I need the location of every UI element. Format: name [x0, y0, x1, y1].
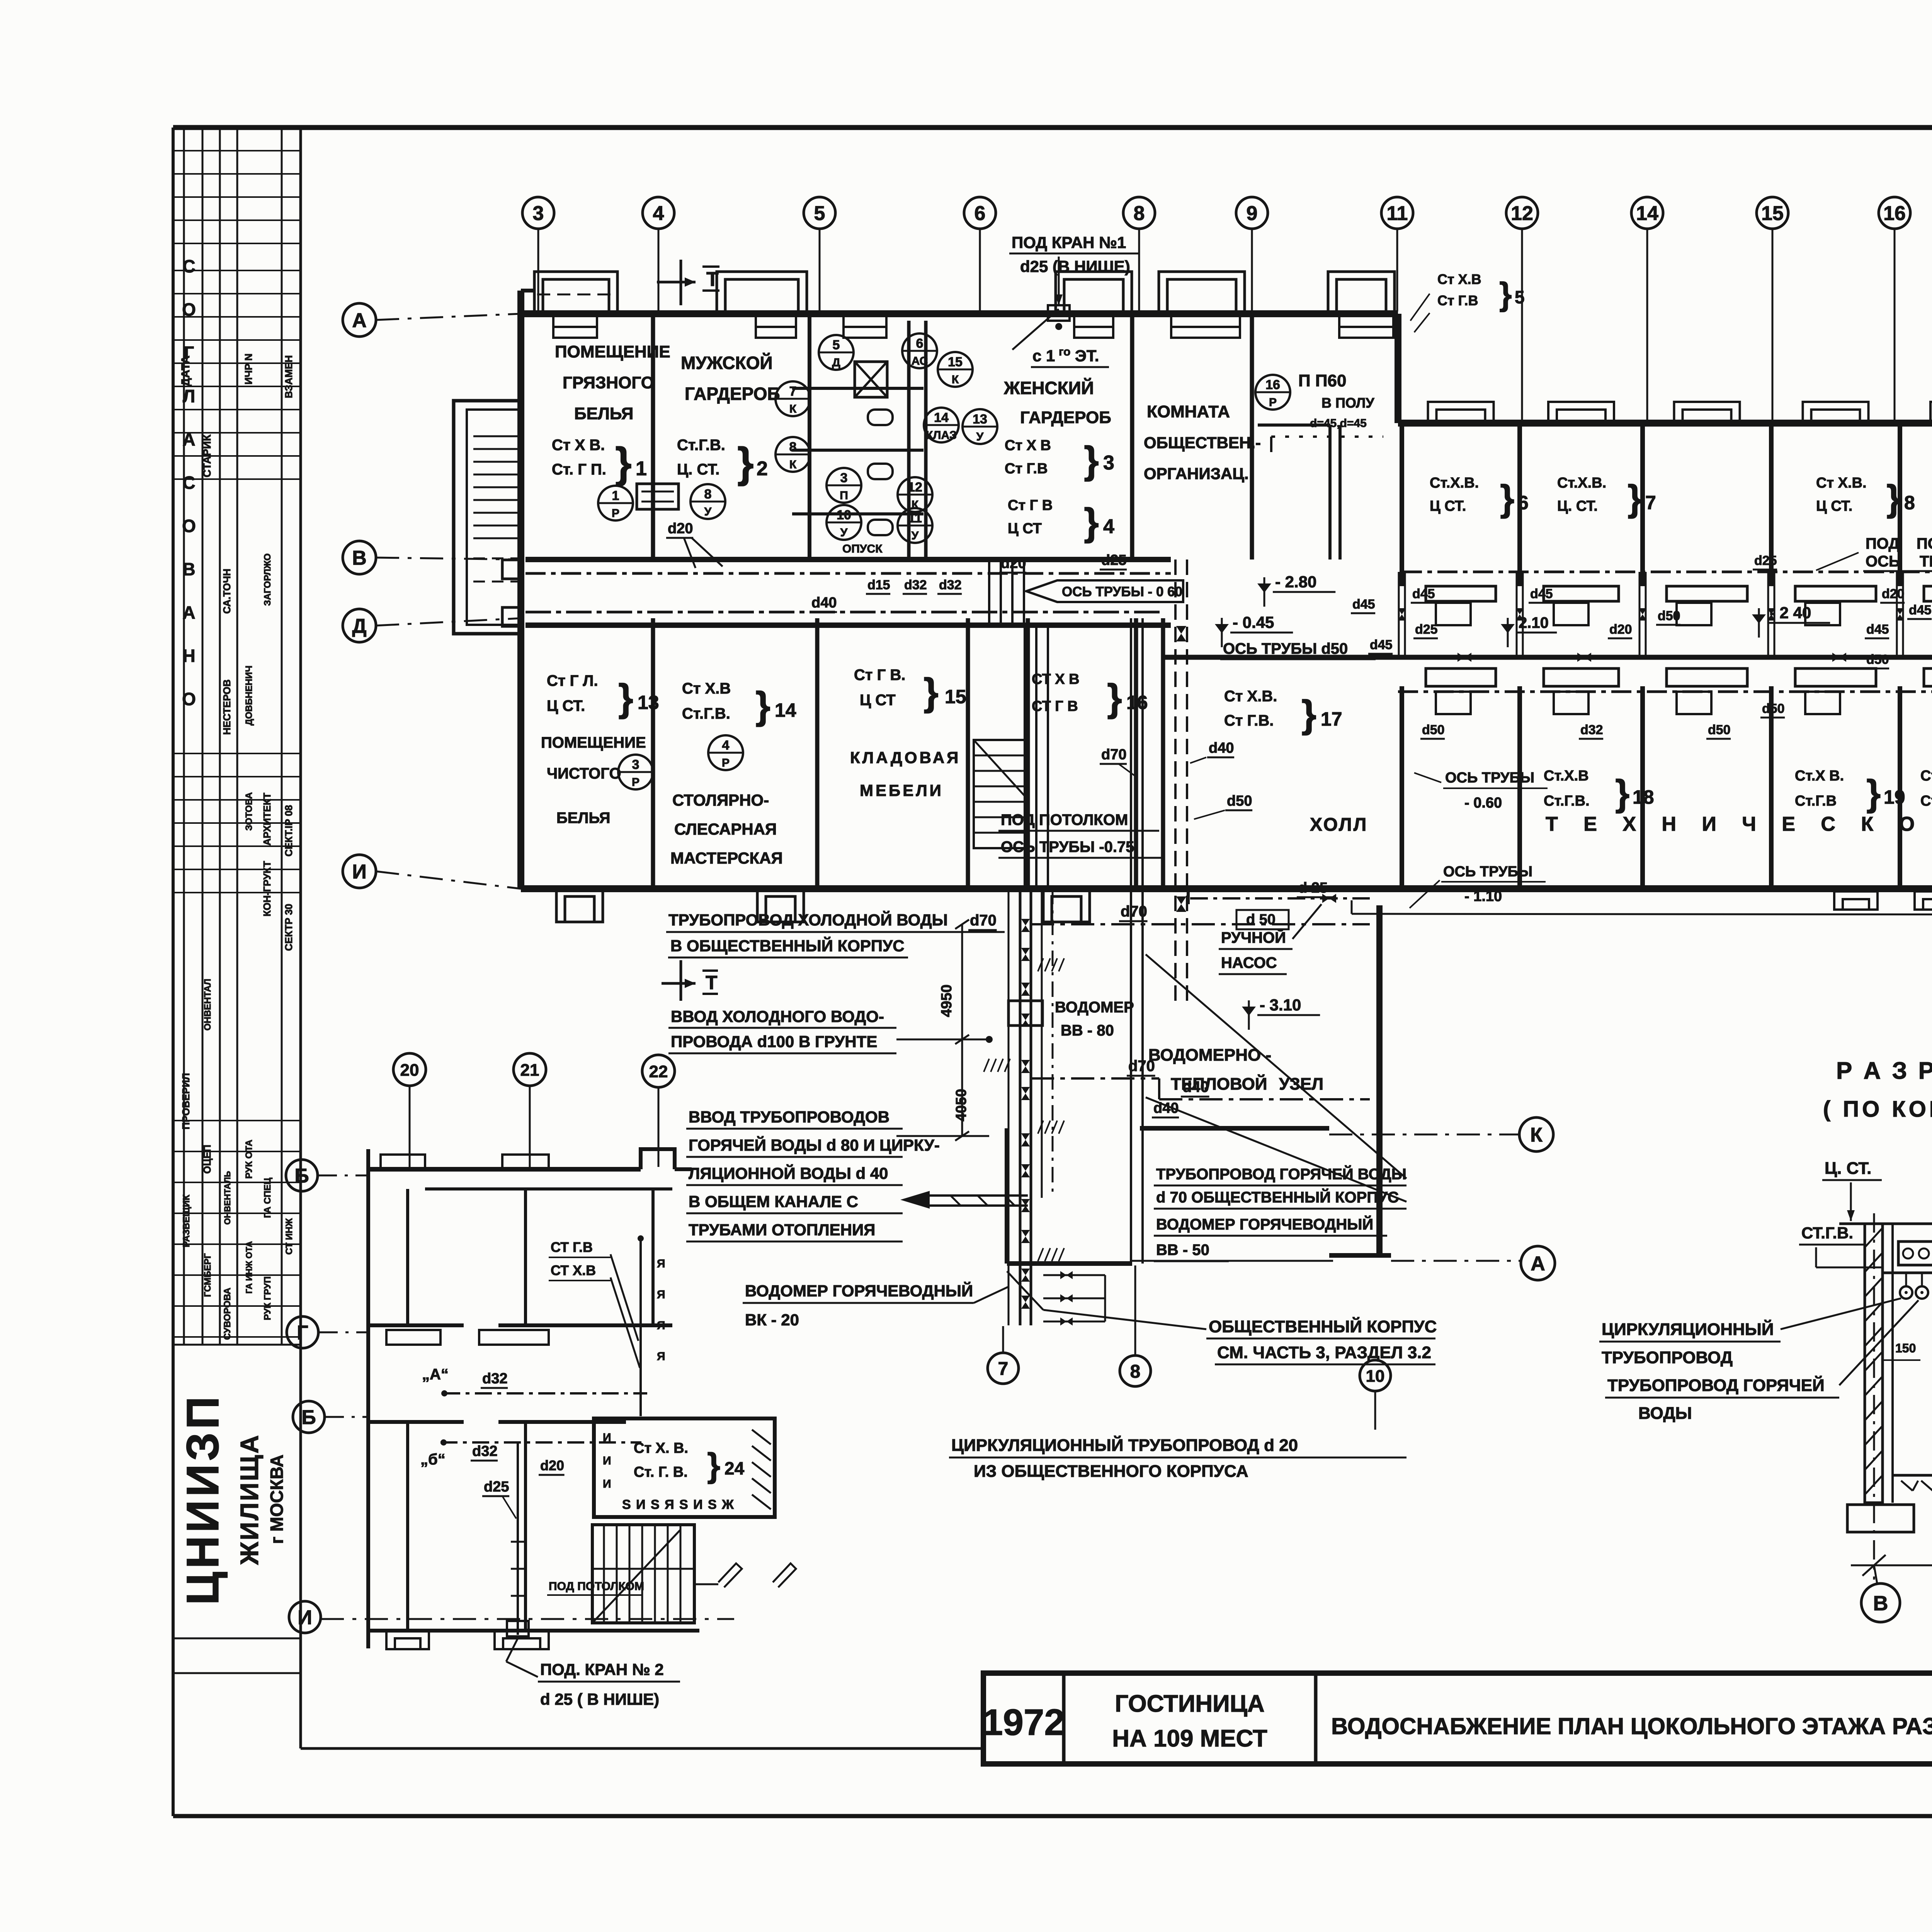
title block frame — [983, 1673, 1932, 1764]
svg-text:ОСЬ ТРУБЫ: ОСЬ ТРУБЫ — [1443, 864, 1532, 880]
svg-text:Ст Х В: Ст Х В — [1005, 437, 1051, 454]
svg-text:3: 3 — [840, 471, 848, 485]
svg-text:d45: d45 — [1866, 622, 1889, 637]
svg-text:СТ ИНЖ: СТ ИНЖ — [284, 1218, 294, 1255]
svg-text:С: С — [182, 473, 195, 493]
bowtie below hall — [1322, 894, 1336, 903]
svg-text:И: И — [352, 861, 366, 883]
svg-text:ПОД. КРАН № 2: ПОД. КРАН № 2 — [540, 1660, 664, 1679]
svg-text:7: 7 — [1645, 492, 1656, 514]
svg-text:11: 11 — [1387, 202, 1408, 225]
svg-text:d32: d32 — [904, 578, 927, 592]
svg-text:ТРУБОПРОВОД ХОЛОДНОЙ ВОДЫ: ТРУБОПРОВОД ХОЛОДНОЙ ВОДЫ — [668, 910, 948, 929]
riser circle 3P room13 — [618, 755, 653, 789]
svg-text:В: В — [182, 559, 195, 579]
svg-text:Я: Я — [657, 1288, 665, 1301]
svg-text:Ц СТ: Ц СТ — [860, 692, 896, 709]
vertical riser shaft double dash — [1174, 560, 1177, 1005]
soil hatch marks — [1038, 958, 1043, 971]
svg-text:Ст.Х В.: Ст.Х В. — [1795, 768, 1844, 784]
room 24 side hatch — [752, 1430, 771, 1444]
pipe d40 horizontal mid — [1159, 1098, 1370, 1100]
riser circle 5D — [819, 335, 854, 370]
svg-text:с 1: с 1 — [1032, 347, 1055, 365]
small plan corridor walls — [368, 1323, 464, 1327]
svg-text:КОН-ГРУКТ: КОН-ГРУКТ — [261, 861, 273, 917]
svg-text:ВОДЫ: ВОДЫ — [1638, 1404, 1692, 1423]
svg-text:14: 14 — [934, 410, 949, 425]
svg-text:ЦИРКУЛЯЦИОННЫЙ ТРУБОПРОВОД: ЦИРКУЛЯЦИОННЫЙ ТРУБОПРОВОД d 20 — [951, 1435, 1298, 1455]
svg-text:ГАРДЕРОБ: ГАРДЕРОБ — [1020, 408, 1111, 427]
svg-text:8: 8 — [789, 440, 797, 454]
svg-text:СТ Г В: СТ Г В — [1032, 698, 1078, 714]
section top slab lines — [1839, 1223, 1932, 1225]
svg-text:Ст. Г П.: Ст. Г П. — [552, 461, 606, 478]
svg-text:d45: d45 — [1370, 638, 1393, 652]
svg-text:ОНВЕНТАЛЬ: ОНВЕНТАЛЬ — [223, 1171, 232, 1225]
svg-text:4: 4 — [653, 202, 664, 225]
svg-text:8: 8 — [1134, 202, 1145, 225]
stamp strip row lines middle — [173, 753, 301, 754]
svg-text:}: } — [1107, 676, 1122, 719]
svg-text:С: С — [182, 256, 195, 276]
svg-text:8: 8 — [704, 487, 712, 502]
svg-text:МЕБЕЛИ: МЕБЕЛИ — [860, 781, 944, 799]
grid axis bubble 6 — [964, 197, 996, 229]
pipe d32 upper small plan — [443, 1392, 647, 1395]
riser circle 8U — [690, 484, 725, 519]
svg-text:Я: Я — [657, 1350, 665, 1363]
entrance porch outline — [454, 401, 521, 634]
svg-text:- 0.60: - 0.60 — [1464, 795, 1502, 811]
wing corridor piers lower row — [1426, 668, 1496, 686]
svg-text:ТРУБОПРОВОД: ТРУБОПРОВОД — [1602, 1348, 1733, 1367]
svg-text:d 25 ( В НИШЕ): d 25 ( В НИШЕ) — [540, 1690, 659, 1708]
riser circle 4P room14 — [708, 735, 743, 770]
svg-text:ОСЬ: ОСЬ — [1866, 553, 1900, 570]
section footing left — [1847, 1505, 1914, 1532]
riser circle 14 — [924, 408, 959, 442]
svg-text:6: 6 — [916, 336, 923, 351]
svg-text:Ст.Х.В.: Ст.Х.В. — [1557, 475, 1606, 491]
svg-text:16: 16 — [1883, 202, 1906, 225]
svg-text:Я: Я — [657, 1319, 665, 1332]
riser circle 6AC — [902, 333, 937, 368]
d70 vertical pipes to hall — [1130, 618, 1132, 889]
svg-text:В: В — [352, 547, 367, 570]
arrow to duct — [900, 1191, 930, 1209]
svg-text:У: У — [704, 505, 712, 518]
svg-text:d40: d40 — [811, 595, 837, 611]
svg-text:УЗЕЛ: УЗЕЛ — [1279, 1075, 1323, 1094]
svg-text:d40: d40 — [1209, 740, 1234, 756]
svg-text:О: О — [182, 689, 196, 709]
svg-text:К: К — [789, 458, 797, 471]
dimension line vertical 4950 — [961, 924, 963, 1136]
svg-text:2.10: 2.10 — [1519, 614, 1549, 631]
svg-text:16: 16 — [1265, 378, 1280, 392]
window bay bottom wall left block — [757, 889, 804, 922]
svg-text:ОБЩЕСТВЕННЫЙ КОРПУС: ОБЩЕСТВЕННЫЙ КОРПУС — [1209, 1316, 1437, 1336]
svg-text:Ст.Х.В.: Ст.Х.В. — [1430, 475, 1479, 491]
svg-text:Г: Г — [297, 1322, 308, 1344]
svg-text:Ст Х В.: Ст Х В. — [552, 437, 605, 454]
svg-text:1: 1 — [636, 457, 647, 480]
svg-text:А: А — [352, 310, 367, 332]
small plan inner top wall — [425, 1187, 672, 1190]
svg-text:ПОД ПОТОЛКОМ: ПОД ПОТОЛКОМ — [549, 1580, 644, 1593]
section mark T bottom — [680, 960, 682, 1001]
svg-text:У: У — [976, 430, 984, 443]
svg-text:БЕЛЬЯ: БЕЛЬЯ — [574, 404, 633, 423]
duct dashes — [951, 1196, 961, 1206]
grid axis bubble 14 — [1631, 197, 1663, 229]
svg-text:Ст Г В.: Ст Г В. — [854, 667, 905, 684]
svg-text:В ОБЩЕСТВЕННЫЙ КОРПУС: В ОБЩЕСТВЕННЫЙ КОРПУС — [670, 936, 905, 955]
svg-text:}: } — [707, 1446, 720, 1484]
dashed sill line in first window — [537, 294, 617, 296]
svg-text:ТЕПЛОВОЙ: ТЕПЛОВОЙ — [1171, 1074, 1267, 1094]
svg-text:15: 15 — [948, 355, 963, 369]
svg-text:Ст Г.В: Ст Г.В — [1005, 461, 1048, 477]
stamp strip row lines upper — [173, 150, 301, 151]
svg-text:d45: d45 — [1412, 587, 1435, 601]
svg-text:„б“: „б“ — [420, 1451, 446, 1468]
circulation dash riser — [1052, 889, 1054, 1198]
pilaster below top wall — [1339, 316, 1393, 327]
svg-text:Ст Г Л.: Ст Г Л. — [547, 672, 598, 689]
svg-text:СТ Х В: СТ Х В — [1032, 671, 1080, 687]
svg-text:ГОРЯЧЕЙ ВОДЫ d 80 И ЦИРКУ-: ГОРЯЧЕЙ ВОДЫ d 80 И ЦИРКУ- — [689, 1136, 940, 1154]
cniiep box border — [173, 1638, 301, 1639]
svg-text:ЖИЛИЩА: ЖИЛИЩА — [235, 1434, 264, 1565]
svg-text:Ст Х. В.: Ст Х. В. — [634, 1440, 688, 1456]
grid axis bubble 16 — [1879, 197, 1910, 229]
grid axis bubble 8 — [1123, 197, 1155, 229]
row axis bubble В left — [343, 541, 376, 574]
svg-text:d32: d32 — [472, 1443, 497, 1459]
svg-text:13: 13 — [973, 412, 987, 427]
svg-text:СТ.Г.В.: СТ.Г.В. — [1801, 1224, 1853, 1242]
svg-text:ВЗАМЕН: ВЗАМЕН — [283, 355, 294, 398]
svg-text:d 70 ОБЩЕСТВЕННЫЙ КОРПУС: d 70 ОБЩЕСТВЕННЫЙ КОРПУС — [1156, 1188, 1399, 1206]
wing riser drops at partitions — [1398, 572, 1400, 657]
svg-text:24: 24 — [724, 1458, 745, 1478]
small plan outline — [366, 1149, 370, 1648]
svg-text:ДОВБНЕНИЧ: ДОВБНЕНИЧ — [244, 665, 254, 725]
section leaders left — [1781, 1298, 1901, 1329]
svg-text:Ст Г.В.: Ст Г.В. — [1224, 712, 1274, 729]
svg-text:}: } — [755, 684, 770, 727]
svg-text:ВВ - 50: ВВ - 50 — [1156, 1242, 1209, 1259]
svg-text:ВК - 20: ВК - 20 — [745, 1311, 799, 1329]
svg-text:}: } — [1084, 439, 1099, 482]
svg-text:3: 3 — [632, 757, 639, 772]
svg-text:d20: d20 — [1609, 622, 1632, 637]
grid axis bubble 4 — [643, 197, 674, 229]
svg-text:Ц СТ.: Ц СТ. — [1430, 498, 1466, 514]
pilaster below top wall — [553, 316, 597, 327]
entrance stair steps — [473, 435, 518, 437]
svg-text:ГА ИНЖ ОТА: ГА ИНЖ ОТА — [244, 1241, 254, 1294]
svg-text:ПОД КРАН №1: ПОД КРАН №1 — [1012, 233, 1126, 252]
svg-text:ЛЯЦИОННОЙ ВОДЫ d 40: ЛЯЦИОННОЙ ВОДЫ d 40 — [689, 1164, 888, 1182]
sheet outer border — [173, 125, 1932, 130]
svg-text:13: 13 — [638, 692, 659, 713]
svg-text:Ст Г.В: Ст Г.В — [1437, 293, 1478, 308]
svg-text:СЕКТР 30: СЕКТР 30 — [283, 904, 294, 951]
svg-text:ПОД ПОТОЛКОМ: ПОД ПОТОЛКОМ — [1001, 811, 1128, 828]
section floor line — [1893, 1474, 1932, 1477]
svg-text:А: А — [1531, 1253, 1545, 1275]
svg-text:d20: d20 — [540, 1458, 564, 1473]
svg-text:4: 4 — [1103, 515, 1114, 538]
row axis bubble А left — [343, 303, 376, 337]
svg-text:ОСЬ ТРУБЫ - 0 60: ОСЬ ТРУБЫ - 0 60 — [1062, 584, 1182, 599]
svg-text:}: } — [1628, 478, 1642, 519]
vertical pipes right pair — [1130, 889, 1132, 1264]
svg-text:d45: d45 — [1530, 587, 1553, 601]
svg-text:Р: Р — [632, 776, 639, 789]
grid axis bubble 3 — [522, 197, 554, 229]
svg-text:d25: d25 — [1415, 622, 1438, 637]
pipe d40 corridor line — [526, 611, 1163, 614]
riser circle 1P — [598, 486, 633, 520]
svg-text:Ст Х В: Ст Х В — [1920, 768, 1932, 784]
svg-text:СТАРИК: СТАРИК — [201, 434, 213, 478]
water meter VV80 symbol — [1009, 1001, 1043, 1026]
grid axis bubble 5 — [804, 197, 835, 229]
pipe d70 horizontal mid — [1031, 1077, 1159, 1080]
svg-text:8: 8 — [1130, 1361, 1141, 1382]
svg-text:ЭТ.: ЭТ. — [1075, 347, 1099, 365]
svg-text:10: 10 — [837, 508, 851, 522]
row axis bubble Д left — [343, 609, 376, 642]
svg-text:d45: d45 — [1909, 603, 1932, 617]
svg-text:17: 17 — [1321, 708, 1342, 730]
partition room14-kladovaya — [815, 618, 820, 889]
svg-text:14: 14 — [775, 699, 796, 721]
svg-text:ОСЬ ТРУБЫ: ОСЬ ТРУБЫ — [1445, 770, 1534, 786]
svg-text:}: } — [1500, 478, 1514, 519]
svg-text:Ст Х.В: Ст Х.В — [1437, 271, 1481, 287]
vertical pipes room16 down — [1024, 625, 1026, 889]
riser circle 10U — [827, 505, 861, 540]
svg-text:КОМНАТА: КОМНАТА — [1147, 402, 1230, 421]
svg-text:15: 15 — [1761, 202, 1784, 225]
corridor pier bump left outside — [502, 560, 522, 579]
svg-text:ИЗ ОБЩЕСТВЕННОГО КОРПУСА: ИЗ ОБЩЕСТВЕННОГО КОРПУСА — [974, 1462, 1248, 1481]
svg-text:- 2.80: - 2.80 — [1275, 573, 1316, 591]
svg-text:ВОДОМЕР: ВОДОМЕР — [1055, 999, 1134, 1016]
wing small fitting clusters — [1436, 603, 1471, 625]
svg-text:2: 2 — [757, 457, 768, 480]
svg-text:БЕЛЬЯ: БЕЛЬЯ — [556, 810, 610, 827]
svg-text:ЗОТОВА: ЗОТОВА — [244, 792, 254, 831]
partition sanitary mid — [907, 321, 911, 560]
pipe d25 vertical small plan — [517, 1442, 519, 1635]
svg-text:В ОБЩЕМ КАНАЛЕ С: В ОБЩЕМ КАНАЛЕ С — [689, 1192, 858, 1211]
svg-text:А: А — [182, 429, 195, 449]
svg-text:14: 14 — [1636, 202, 1658, 225]
svg-text:16: 16 — [1126, 692, 1148, 713]
svg-text:d32: d32 — [939, 578, 962, 592]
section ceiling channel — [1898, 1242, 1932, 1265]
wing pipe lower dashline — [1398, 690, 1932, 693]
leader lines to pipes uzel — [1146, 954, 1406, 1179]
svg-text:Ст Х.В: Ст Х.В — [682, 680, 731, 697]
main pipe d50 thick — [1163, 655, 1932, 660]
svg-text:ЗАГОРЛЖО: ЗАГОРЛЖО — [262, 553, 273, 606]
svg-text:3: 3 — [1103, 452, 1114, 474]
wing partitions upper — [1400, 423, 1404, 586]
svg-text:А: А — [182, 602, 195, 622]
bubble 8 lower — [1120, 1355, 1151, 1386]
svg-text:5: 5 — [814, 202, 825, 225]
svg-text:- 3.10: - 3.10 — [1260, 996, 1301, 1014]
pipe d70 horizontal top — [1031, 923, 1370, 925]
svg-text:КЛАЗ: КЛАЗ — [926, 429, 957, 442]
kladovaya walls — [966, 618, 970, 889]
svg-text:S И S Я S И S Ж: S И S Я S И S Ж — [622, 1497, 735, 1512]
axis I small plan — [321, 1618, 734, 1620]
svg-text:4: 4 — [722, 738, 730, 753]
svg-text:ВВОД ТРУБОПРОВОДОВ: ВВОД ТРУБОПРОВОДОВ — [689, 1108, 889, 1126]
svg-text:„А“: „А“ — [422, 1366, 449, 1383]
svg-text:ПОД: ПОД — [1866, 535, 1900, 552]
svg-text:ПРОВЕРИЛ: ПРОВЕРИЛ — [180, 1073, 192, 1129]
uzel walls bottom — [1140, 1126, 1329, 1131]
svg-text:}: } — [1886, 478, 1901, 519]
svg-text:10: 10 — [1366, 1367, 1385, 1386]
svg-text:Ц СТ.: Ц СТ. — [1816, 498, 1852, 514]
svg-text:Б: Б — [301, 1406, 316, 1429]
svg-text:19: 19 — [1884, 786, 1905, 808]
svg-text:6: 6 — [1518, 492, 1529, 514]
svg-text:- 0.45: - 0.45 — [1233, 613, 1274, 631]
svg-text:В: В — [1873, 1592, 1888, 1615]
inner stair flight — [974, 740, 1025, 848]
stamp strip column lines — [183, 128, 185, 1345]
svg-text:ДАТА: ДАТА — [179, 355, 192, 386]
pilaster below top wall — [1171, 316, 1240, 327]
svg-text:Ст.Г.В.: Ст.Г.В. — [677, 437, 725, 454]
svg-text:d50: d50 — [1422, 723, 1445, 737]
section bubble V — [1861, 1583, 1900, 1622]
svg-text:4050: 4050 — [953, 1089, 969, 1122]
section inner wall faces — [1891, 1224, 1894, 1503]
svg-text:11: 11 — [908, 511, 922, 526]
svg-text:ОСЬ ТРУБЫ d50: ОСЬ ТРУБЫ d50 — [1223, 640, 1348, 657]
svg-text:Ст.Г.В: Ст.Г.В — [1795, 793, 1837, 809]
small meter box between — [637, 484, 679, 509]
section mark T top — [680, 260, 682, 305]
shower X box — [855, 362, 887, 397]
svg-text:СА.ТОЧН: СА.ТОЧН — [221, 569, 233, 614]
bubble 7 lower — [988, 1353, 1019, 1384]
svg-text:МАСТЕРСКАЯ: МАСТЕРСКАЯ — [670, 849, 783, 867]
svg-text:ПОМЕЩЕНИЕ: ПОМЕЩЕНИЕ — [541, 734, 646, 751]
riser pipe small plan — [639, 1236, 642, 1416]
svg-text:}: } — [737, 439, 754, 486]
svg-text:Ст.Г.В.: Ст.Г.В. — [1544, 793, 1590, 809]
svg-text:7: 7 — [998, 1359, 1009, 1379]
svg-text:Ст Г В: Ст Г В — [1008, 497, 1053, 514]
svg-text:d=45,d=45: d=45,d=45 — [1310, 417, 1367, 430]
wing top wall axis B — [1398, 420, 1932, 427]
svg-text:1972: 1972 — [982, 1702, 1065, 1743]
svg-text:И: И — [603, 1454, 611, 1467]
svg-text:d25: d25 — [484, 1479, 509, 1495]
svg-text:ПОТОЛКОМ: ПОТОЛКОМ — [1917, 535, 1932, 552]
pipe d25 below hall — [1190, 897, 1370, 900]
wing valves on main pipe — [1458, 653, 1471, 662]
wc fixtures — [868, 410, 893, 425]
bubble 10 lower — [1360, 1360, 1391, 1391]
svg-text:d20: d20 — [1882, 587, 1905, 601]
svg-text:РУЧНОЙ: РУЧНОЙ — [1221, 929, 1286, 946]
svg-text:РУК ОТА: РУК ОТА — [244, 1139, 254, 1179]
door leafs — [718, 1563, 742, 1587]
svg-text:ОСЬ ТРУБЫ -0.75: ОСЬ ТРУБЫ -0.75 — [1001, 838, 1134, 855]
svg-text:8: 8 — [1904, 492, 1915, 514]
svg-text:}: } — [618, 676, 633, 719]
small plan stair — [592, 1525, 694, 1623]
svg-text:ПРОВОДА d100 В ГРУНТЕ: ПРОВОДА d100 В ГРУНТЕ — [671, 1032, 877, 1051]
riser circle 7K — [776, 381, 810, 416]
svg-text:d 50: d 50 — [1246, 912, 1276, 928]
svg-text:ОЦЕП: ОЦЕП — [201, 1145, 213, 1173]
svg-text:}: } — [1866, 772, 1881, 814]
svg-text:ПОМЕЩЕНИЕ: ПОМЕЩЕНИЕ — [555, 342, 670, 361]
riser circle 8K — [776, 437, 810, 472]
svg-text:Н: Н — [182, 646, 195, 666]
riser circle 16P — [1255, 375, 1290, 410]
svg-text:Ст Х.В.: Ст Х.В. — [1224, 688, 1277, 705]
svg-text:СЛЕСАРНАЯ: СЛЕСАРНАЯ — [674, 820, 777, 838]
stamp strip bottom box — [173, 1672, 301, 1674]
small plan partitions — [406, 1189, 409, 1325]
small plan axis bubbles — [286, 1160, 318, 1191]
svg-text:ИЧР N: ИЧР N — [243, 354, 254, 384]
window bay top wall — [534, 272, 617, 314]
wing partitions lower — [1400, 686, 1404, 889]
svg-text:d20: d20 — [668, 520, 693, 537]
svg-text:ВОДОМЕРНО -: ВОДОМЕРНО - — [1148, 1046, 1271, 1065]
svg-text:Л: Л — [183, 386, 195, 406]
svg-text:Ст Х.В.: Ст Х.В. — [1816, 475, 1867, 491]
hall west wall — [1161, 618, 1165, 889]
svg-text:d50: d50 — [1866, 652, 1889, 667]
svg-text:ЦНИИЗП: ЦНИИЗП — [177, 1393, 228, 1605]
svg-text:ЖЕНСКИЙ: ЖЕНСКИЙ — [1003, 378, 1094, 398]
svg-text:И: И — [298, 1607, 312, 1629]
svg-text:ВОДОМЕР ГОРЯЧЕВОДНЫЙ: ВОДОМЕР ГОРЯЧЕВОДНЫЙ — [1156, 1215, 1373, 1233]
grid axis bubble 9 — [1236, 197, 1268, 229]
wing top windows — [1428, 402, 1494, 423]
svg-text:ОПУСК: ОПУСК — [842, 543, 883, 555]
kran fitting on wall — [1048, 305, 1070, 321]
svg-text:ТРУБОПРОВОД ГОРЯЧЕЙ ВОДЫ: ТРУБОПРОВОД ГОРЯЧЕЙ ВОДЫ — [1156, 1165, 1406, 1183]
stamp strip row lines lower — [173, 1120, 301, 1121]
window bay top wall — [1328, 272, 1395, 314]
riser circle 3P — [827, 468, 861, 503]
svg-text:Д: Д — [832, 356, 840, 369]
svg-text:У: У — [912, 529, 919, 542]
svg-text:ЦИРКУЛЯЦИОННЫЙ: ЦИРКУЛЯЦИОННЫЙ — [1602, 1319, 1774, 1339]
svg-text:}: } — [1615, 772, 1629, 814]
svg-text:О: О — [182, 299, 196, 320]
